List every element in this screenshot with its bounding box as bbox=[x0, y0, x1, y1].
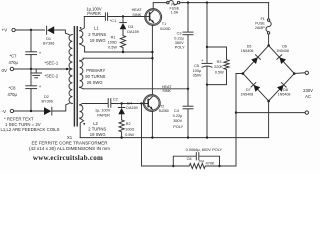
svg-text:C5: C5 bbox=[194, 64, 199, 68]
capacitor C2 1u 100V paper bbox=[83, 97, 118, 117]
svg-text:470K: 470K bbox=[206, 161, 215, 165]
node junction C3 top bbox=[187, 1, 189, 3]
capacitor C3 0.22u bbox=[174, 3, 193, 89]
svg-text:D1: D1 bbox=[46, 37, 51, 41]
svg-text:19 SWG: 19 SWG bbox=[90, 38, 106, 43]
transformer core bbox=[73, 26, 75, 127]
node junction secondary tap bbox=[66, 68, 68, 70]
wire +V rail bbox=[15, 29, 44, 31]
svg-text:26 SWG: 26 SWG bbox=[87, 80, 103, 85]
capacitor C5 100u bbox=[193, 58, 212, 138]
svg-text:0.5W: 0.5W bbox=[215, 70, 224, 74]
svg-text:*SEC-1: *SEC-1 bbox=[45, 61, 59, 66]
svg-text:*C1: *C1 bbox=[110, 18, 117, 23]
svg-text:+: + bbox=[39, 84, 42, 89]
svg-text:100Ω: 100Ω bbox=[125, 128, 134, 132]
svg-text:470μ: 470μ bbox=[8, 92, 18, 97]
svg-text:POLY: POLY bbox=[175, 46, 185, 50]
svg-text:R2: R2 bbox=[126, 122, 131, 126]
svg-text:C3: C3 bbox=[177, 32, 182, 36]
svg-text:D3: D3 bbox=[128, 25, 133, 29]
svg-text:0.0068μ, 600V POLY: 0.0068μ, 600V POLY bbox=[186, 147, 223, 152]
capacitor C7 470u bbox=[9, 30, 42, 69]
svg-text:350V: 350V bbox=[193, 74, 202, 78]
winding L2 bbox=[80, 104, 107, 138]
svg-text:-V: -V bbox=[2, 109, 8, 114]
node junction start network bbox=[140, 102, 142, 104]
wire C5 drop bbox=[206, 3, 208, 64]
node -V terminal bbox=[2, 109, 14, 114]
svg-text:R1: R1 bbox=[111, 35, 116, 39]
wire top rail bbox=[180, 2, 269, 4]
wire 0V to center tap bbox=[14, 68, 71, 70]
svg-text:C8: C8 bbox=[187, 157, 192, 161]
node junction C5 top rail bbox=[206, 1, 208, 3]
svg-text:T1: T1 bbox=[162, 22, 166, 26]
svg-text:2AMP: 2AMP bbox=[255, 26, 265, 30]
winding L1 bbox=[80, 17, 107, 53]
svg-text:0.5W: 0.5W bbox=[108, 45, 117, 49]
node junction primary top bbox=[151, 57, 153, 59]
svg-text:*SEC-2: *SEC-2 bbox=[45, 74, 59, 79]
node junction R1 bottom bbox=[122, 51, 124, 53]
wire C2 to T2 base bbox=[111, 103, 144, 105]
svg-text:C4: C4 bbox=[174, 109, 179, 113]
wire DC minus rail bbox=[80, 137, 268, 139]
svg-text:0.22μ: 0.22μ bbox=[174, 36, 184, 40]
node +V terminal bbox=[2, 28, 16, 33]
wire primary top to midpoint bbox=[83, 57, 152, 59]
svg-text:D5: D5 bbox=[247, 44, 252, 48]
diode D2 BY396 bbox=[42, 95, 53, 115]
svg-text:FUSE: FUSE bbox=[255, 21, 265, 25]
fuse F2 1.0A bbox=[167, 1, 180, 15]
capacitor C1 1u 100V paper bbox=[84, 6, 116, 23]
wire T2 emitter bbox=[151, 112, 153, 138]
svg-text:T2: T2 bbox=[160, 104, 164, 108]
wire T1 collector bbox=[153, 3, 167, 9]
fuse F1 2AMP bbox=[255, 3, 271, 46]
svg-text:D6: D6 bbox=[282, 44, 287, 48]
svg-text:*C8: *C8 bbox=[9, 86, 17, 91]
ground bbox=[31, 69, 42, 78]
node junction D3 bbox=[122, 15, 124, 17]
capacitor C4 0.22u bbox=[173, 89, 193, 138]
svg-text:+V: +V bbox=[2, 28, 9, 33]
node bridge top bbox=[267, 44, 270, 47]
svg-text:PAPER: PAPER bbox=[97, 113, 110, 117]
node bridge right bbox=[293, 72, 296, 75]
svg-text:1N5408: 1N5408 bbox=[276, 49, 289, 53]
diode D4 DA159 bbox=[118, 101, 137, 120]
svg-text:100Ω: 100Ω bbox=[108, 40, 117, 44]
svg-text:1N5408: 1N5408 bbox=[241, 93, 254, 97]
svg-text:DA159: DA159 bbox=[126, 106, 137, 110]
svg-text:BU208D: BU208D bbox=[160, 27, 170, 31]
node junction snubber right bbox=[218, 165, 220, 167]
resistor R2 100ohm bbox=[119, 120, 134, 138]
svg-text:(42 x14 x 30) ALL DIMENSIONS I: (42 x14 x 30) ALL DIMENSIONS IN mm bbox=[29, 146, 111, 151]
svg-text:L1: L1 bbox=[94, 26, 99, 31]
svg-text:POLY: POLY bbox=[173, 125, 183, 129]
transistor T1 BU208D bbox=[145, 9, 171, 31]
node 0V terminal bbox=[2, 67, 14, 73]
svg-text:100μ: 100μ bbox=[193, 69, 202, 73]
wire T1 emitter to T2 collector bbox=[151, 26, 153, 95]
svg-text:2 TURNS: 2 TURNS bbox=[88, 127, 106, 132]
svg-text:230V: 230V bbox=[303, 88, 313, 93]
svg-text:2 TURNS: 2 TURNS bbox=[88, 32, 106, 37]
svg-text:+: + bbox=[201, 58, 204, 63]
node junction C8 bottom bbox=[30, 110, 32, 112]
node junction C7/C8 bbox=[30, 68, 32, 70]
svg-text:R4: R4 bbox=[199, 160, 204, 164]
node junction C5 R3 bottom bbox=[206, 84, 208, 86]
winding primary 90 turns bbox=[80, 58, 106, 89]
svg-text:SINK: SINK bbox=[162, 89, 171, 93]
node bridge bottom bbox=[267, 100, 270, 103]
wire -V to D2 bbox=[14, 110, 44, 112]
svg-text:0.22μ: 0.22μ bbox=[173, 114, 183, 118]
svg-text:X1: X1 bbox=[67, 135, 73, 140]
svg-text:90 TURNS: 90 TURNS bbox=[85, 74, 105, 79]
svg-text:D4: D4 bbox=[127, 101, 132, 105]
diode D8 1N5408 bbox=[269, 74, 295, 102]
diode D6 1N5408 bbox=[269, 44, 295, 73]
svg-text:L2: L2 bbox=[93, 121, 98, 126]
node junction D4 bbox=[120, 102, 122, 104]
diode D3 DA159 bbox=[120, 17, 139, 36]
svg-text:BU208D: BU208D bbox=[159, 109, 170, 113]
wire L1 return bbox=[85, 51, 153, 53]
svg-text:350V: 350V bbox=[175, 41, 184, 45]
svg-text:1N5406: 1N5406 bbox=[241, 49, 254, 53]
wire primary bottom to cap midpoint bbox=[83, 88, 188, 90]
node junction AC terminal branch bbox=[235, 111, 237, 113]
svg-text:AC: AC bbox=[305, 94, 311, 99]
svg-text:19 SWG: 19 SWG bbox=[90, 132, 106, 137]
node junction C5 rail bbox=[206, 136, 208, 138]
svg-text:1 SEC TURN = 2V: 1 SEC TURN = 2V bbox=[5, 122, 41, 127]
resistor R4 470K bbox=[173, 160, 219, 169]
svg-text:D8: D8 bbox=[283, 88, 288, 92]
node junction L1 return bbox=[151, 51, 153, 53]
node AC terminal neutral bbox=[305, 111, 308, 114]
svg-text:D7: D7 bbox=[246, 88, 251, 92]
node AC terminal live bbox=[305, 71, 308, 74]
wire bridge bottom to DC rail bbox=[268, 101, 270, 138]
wire AC neutral bbox=[236, 112, 305, 114]
svg-text:F1: F1 bbox=[261, 17, 265, 21]
resistor R3 220K bbox=[207, 47, 229, 85]
diode D5 1N5406 bbox=[241, 44, 269, 73]
wire bridge right to AC terminal bbox=[294, 72, 305, 75]
svg-text:*C7: *C7 bbox=[10, 54, 18, 59]
svg-text:EE FERRITE CORE TRANSFORMER: EE FERRITE CORE TRANSFORMER bbox=[32, 141, 108, 146]
svg-text:0.5W: 0.5W bbox=[125, 133, 134, 137]
wire C1 to T1 base bbox=[108, 16, 145, 18]
node junction C7 top bbox=[30, 29, 32, 31]
capacitor C8s loop bbox=[173, 153, 219, 166]
transistor T2 BU208D bbox=[143, 95, 169, 113]
node junction primary bottom bbox=[187, 88, 189, 90]
svg-text:1N5408: 1N5408 bbox=[278, 93, 291, 97]
svg-text:www.ecircuitslab.com: www.ecircuitslab.com bbox=[33, 154, 103, 162]
svg-text:D2: D2 bbox=[44, 95, 49, 99]
wire D2 to secondary bottom bbox=[52, 103, 69, 111]
wire D1 to secondary top bbox=[54, 30, 69, 35]
diode D1 BY396 bbox=[43, 26, 54, 45]
wire snubber to AC line bbox=[220, 74, 243, 167]
svg-text:PAPER: PAPER bbox=[87, 11, 101, 16]
svg-text:* REFER TEXT: * REFER TEXT bbox=[4, 116, 34, 121]
svg-text:1μ, 100V: 1μ, 100V bbox=[95, 108, 111, 112]
svg-text:0V: 0V bbox=[2, 68, 9, 73]
transformer X1 secondary winding bbox=[69, 35, 72, 104]
node junction snubber left bbox=[172, 165, 174, 167]
svg-text:DA159: DA159 bbox=[127, 30, 139, 34]
resistor R1 100ohm bbox=[108, 35, 126, 52]
node bridge left bbox=[242, 72, 245, 75]
svg-text:350V: 350V bbox=[173, 119, 182, 123]
svg-text:220K: 220K bbox=[214, 65, 223, 69]
svg-text:R3: R3 bbox=[217, 60, 222, 64]
svg-text:BY396: BY396 bbox=[42, 100, 53, 104]
svg-text:C2: C2 bbox=[113, 97, 118, 101]
node junction C4 rail bbox=[187, 136, 189, 138]
svg-text:470μ: 470μ bbox=[9, 60, 19, 65]
svg-text:SINK: SINK bbox=[132, 12, 141, 17]
node junction R2 rail bbox=[120, 136, 122, 138]
svg-text:BY396: BY396 bbox=[43, 41, 54, 45]
svg-text:PRIMARY: PRIMARY bbox=[86, 68, 105, 73]
diode D7 1N5408 bbox=[241, 74, 269, 102]
node junction R3 branch bbox=[206, 46, 208, 48]
node junction T2 emitter rail bbox=[151, 136, 153, 138]
svg-text:1.0A: 1.0A bbox=[171, 10, 179, 14]
svg-text:L1,L2 ARE FEEDBACK COILS: L1,L2 ARE FEEDBACK COILS bbox=[1, 127, 60, 132]
wire start network vertical bbox=[142, 104, 174, 167]
svg-text:+: + bbox=[39, 51, 42, 56]
capacitor C8 470u bbox=[8, 69, 42, 111]
